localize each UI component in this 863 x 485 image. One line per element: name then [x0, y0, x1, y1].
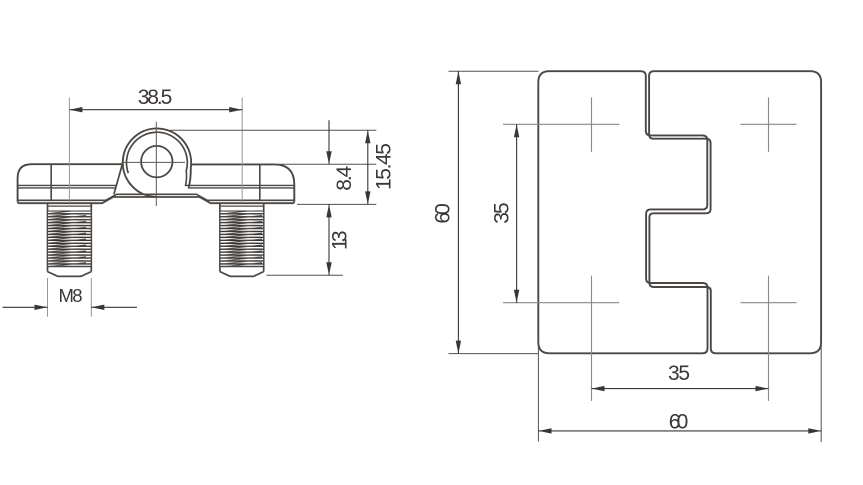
extension lines for 15.45 / 8.4 / 13 dims	[170, 130, 376, 275]
clamp body left arm outline	[18, 164, 123, 201]
boss horizontal centerline	[122, 161, 186, 163]
dimension M8: extension lines	[48, 278, 92, 317]
dimension 60 (bottom horizontal): extension lines	[538, 345, 821, 442]
plate left half outline	[538, 71, 707, 353]
dimension 38.5: extension lines	[69, 98, 242, 204]
boss inner rim arc	[126, 132, 187, 173]
dimension M8: leader lines	[3, 306, 137, 308]
svg-text:38.5: 38.5	[138, 86, 173, 109]
dimension 38.5: dimension line	[69, 109, 242, 111]
dimension 60 (left vertical): extension lines	[449, 71, 539, 353]
dimension M8: right arrowhead	[91, 305, 104, 310]
svg-text:60: 60	[432, 203, 455, 224]
left web diagonal	[114, 164, 123, 195]
dimension 35 (bottom horizontal): line and arrowheads	[592, 388, 769, 390]
dimension 8.4: line and arrowhead	[328, 120, 330, 164]
dimension 60 (left): dimension line	[457, 71, 459, 353]
bolt-hole crosshair centerlines (4 positions)	[503, 97, 797, 401]
serration band line right upper	[186, 184, 294, 186]
dimension 35 (left vertical): line and arrowheads	[516, 124, 518, 302]
dimension M8: left arrowhead	[35, 305, 48, 310]
dimension value labels	[59, 86, 691, 434]
boss outer circle	[123, 129, 191, 197]
boss vertical centerline	[155, 122, 157, 206]
svg-text:35: 35	[668, 362, 690, 385]
svg-text:35: 35	[490, 202, 513, 224]
dimension 13: line and arrowheads	[328, 204, 330, 275]
bolt B2 (right, M8)	[220, 203, 264, 276]
left arm feature vertical	[50, 164, 52, 200]
bolt B1 (left, M8)	[48, 203, 92, 276]
serration band line left lower	[18, 187, 116, 189]
svg-text:15.45: 15.45	[372, 143, 395, 190]
bottom inner line with step	[18, 194, 293, 200]
dimension 38.5: right arrowhead	[229, 107, 242, 112]
right arm feature vertical	[259, 164, 261, 200]
bottom outer line with step	[18, 197, 295, 203]
svg-text:60: 60	[669, 411, 689, 434]
dimension 38.5: left arrowhead	[69, 107, 82, 112]
clamp body right arm outline	[191, 164, 294, 201]
boss inner right edge	[185, 170, 186, 186]
serration band line left upper	[18, 184, 116, 186]
dimension 60 (left): bottom arrowhead	[456, 341, 461, 354]
svg-text:13: 13	[329, 230, 352, 250]
dimension 60 (left): top arrowhead	[456, 71, 461, 84]
boss pin hole	[141, 146, 172, 177]
dimension 15.45: line and arrowheads	[367, 130, 369, 204]
svg-text:8.4: 8.4	[333, 165, 356, 190]
serration band line right lower	[188, 187, 294, 189]
plate right half outline	[649, 71, 821, 353]
dimension 60 (bottom): dimension line	[539, 430, 822, 432]
svg-text:M8: M8	[59, 285, 83, 306]
